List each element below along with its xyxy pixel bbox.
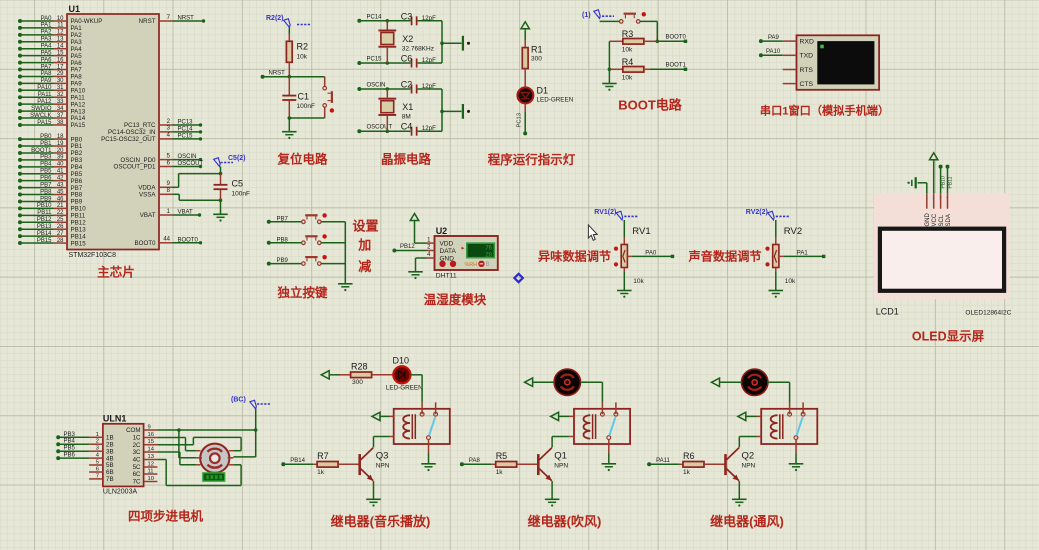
- svg-text:14: 14: [57, 44, 64, 50]
- svg-text:B: B: [486, 262, 490, 268]
- svg-text:45: 45: [57, 189, 64, 195]
- svg-text:11: 11: [148, 469, 154, 475]
- svg-text:21: 21: [57, 203, 64, 209]
- svg-text:RV2(2): RV2(2): [746, 209, 768, 216]
- svg-text:9: 9: [148, 425, 151, 431]
- svg-text:%RH: %RH: [465, 262, 478, 268]
- svg-text:R4: R4: [622, 57, 634, 67]
- svg-text:PB12: PB12: [37, 217, 52, 223]
- svg-text:Q2: Q2: [742, 450, 755, 461]
- svg-text:PA1: PA1: [41, 23, 53, 29]
- svg-text:41: 41: [57, 169, 64, 175]
- svg-text:CTS: CTS: [800, 81, 814, 88]
- svg-text:PA12: PA12: [37, 99, 52, 105]
- svg-text:PC15-OSC32_OUT: PC15-OSC32_OUT: [101, 136, 156, 143]
- svg-text:OSCIN: OSCIN: [178, 154, 197, 160]
- svg-text:12: 12: [57, 30, 64, 36]
- svg-text:VSSA: VSSA: [139, 192, 156, 199]
- svg-text:5B: 5B: [106, 462, 114, 469]
- svg-text:异味数据调节: 异味数据调节: [538, 249, 611, 264]
- svg-text:COM: COM: [126, 427, 140, 434]
- svg-text:37: 37: [57, 113, 64, 119]
- svg-text:PB14: PB14: [37, 231, 52, 237]
- svg-text:25: 25: [57, 217, 64, 223]
- svg-text:42: 42: [57, 175, 64, 181]
- svg-text:32: 32: [57, 92, 64, 98]
- svg-text:C5(2): C5(2): [228, 155, 246, 162]
- svg-text:VBAT: VBAT: [178, 210, 194, 216]
- svg-text:300: 300: [352, 379, 363, 386]
- svg-text:38: 38: [57, 120, 64, 126]
- svg-text:OLED12864I2C: OLED12864I2C: [965, 310, 1011, 317]
- svg-text:15: 15: [57, 50, 64, 56]
- svg-text:7: 7: [96, 473, 99, 479]
- svg-text:PA3: PA3: [41, 37, 53, 43]
- svg-text:PA1: PA1: [797, 250, 809, 256]
- svg-text:PB9: PB9: [277, 258, 289, 264]
- svg-text:PB7: PB7: [40, 182, 52, 188]
- svg-text:5: 5: [96, 460, 99, 466]
- svg-text:300: 300: [531, 56, 542, 63]
- svg-text:C5: C5: [232, 179, 244, 189]
- svg-text:独立按键: 独立按键: [276, 285, 328, 300]
- svg-text:R2(2): R2(2): [266, 15, 284, 22]
- svg-text:程序运行指示灯: 程序运行指示灯: [488, 152, 576, 167]
- svg-text:R7: R7: [317, 451, 329, 461]
- svg-text:PB7: PB7: [277, 216, 289, 222]
- svg-text:27: 27: [57, 231, 64, 237]
- svg-text:34: 34: [57, 106, 64, 112]
- svg-text:C3: C3: [401, 11, 413, 21]
- svg-text:PA7: PA7: [41, 64, 53, 70]
- svg-text:46: 46: [57, 196, 64, 202]
- svg-text:C2: C2: [401, 80, 413, 90]
- svg-text:20: 20: [57, 148, 64, 154]
- svg-text:PB6: PB6: [64, 453, 76, 459]
- svg-text:D10: D10: [393, 356, 410, 366]
- svg-text:100nF: 100nF: [297, 103, 315, 110]
- svg-text:PA0: PA0: [645, 250, 657, 256]
- svg-text:Q3: Q3: [376, 450, 389, 461]
- svg-text:OLED显示屏: OLED显示屏: [912, 330, 985, 344]
- svg-text:PC13: PC13: [517, 113, 523, 128]
- svg-text:C1: C1: [298, 92, 310, 102]
- svg-text:PB3: PB3: [40, 155, 52, 161]
- svg-text:LED-GREEN: LED-GREEN: [537, 97, 574, 104]
- svg-text:NPN: NPN: [554, 462, 568, 469]
- svg-text:1: 1: [96, 432, 99, 438]
- svg-text:OSCIN: OSCIN: [367, 83, 386, 89]
- svg-text:33: 33: [57, 99, 64, 105]
- svg-text:30: 30: [57, 78, 64, 84]
- svg-text:PC14: PC14: [178, 126, 194, 132]
- svg-text:PA10: PA10: [37, 85, 52, 91]
- svg-text:PB5: PB5: [40, 169, 52, 175]
- svg-text:1k: 1k: [317, 469, 325, 476]
- svg-text:DHT11: DHT11: [436, 273, 457, 280]
- svg-text:NPN: NPN: [376, 462, 390, 469]
- svg-text:PB1: PB1: [40, 141, 52, 147]
- svg-text:设置: 设置: [353, 219, 379, 234]
- svg-text:40: 40: [57, 162, 64, 168]
- svg-text:11: 11: [57, 23, 64, 29]
- svg-text:RV1(2): RV1(2): [594, 209, 616, 216]
- svg-text:SDA: SDA: [946, 214, 952, 226]
- svg-text:C4: C4: [401, 122, 413, 132]
- svg-text:C6: C6: [401, 54, 413, 64]
- svg-text:OSCOUT_PD1: OSCOUT_PD1: [114, 164, 157, 171]
- svg-text:3C: 3C: [133, 449, 141, 456]
- svg-text:PA8: PA8: [469, 458, 481, 464]
- svg-text:BOOT0: BOOT0: [666, 35, 687, 41]
- svg-text:10: 10: [57, 16, 64, 22]
- svg-text:PB0: PB0: [40, 134, 52, 140]
- svg-text:LED-GREEN: LED-GREEN: [386, 385, 423, 392]
- svg-text:4C: 4C: [133, 457, 141, 464]
- svg-text:PB9: PB9: [40, 196, 52, 202]
- svg-text:RV1: RV1: [632, 226, 650, 237]
- svg-text:U1: U1: [69, 4, 81, 14]
- svg-text:17: 17: [57, 64, 64, 70]
- svg-text:PA8: PA8: [41, 71, 53, 77]
- svg-text:声音数据调节: 声音数据调节: [688, 249, 762, 264]
- svg-text:10k: 10k: [622, 75, 633, 82]
- svg-text:1k: 1k: [683, 469, 691, 476]
- svg-text:29: 29: [57, 71, 64, 77]
- svg-text:BOOT电路: BOOT电路: [618, 98, 683, 113]
- svg-text:PB12: PB12: [400, 244, 415, 250]
- svg-text:5C: 5C: [133, 464, 141, 471]
- svg-text:10k: 10k: [622, 47, 633, 54]
- svg-text:PB5: PB5: [64, 446, 76, 452]
- svg-text:PB8: PB8: [40, 189, 52, 195]
- svg-text:GND: GND: [925, 213, 931, 227]
- svg-text:31: 31: [57, 85, 64, 91]
- svg-text:STM32F103C8: STM32F103C8: [69, 252, 117, 259]
- svg-text:温湿度模块: 温湿度模块: [424, 292, 487, 307]
- svg-text:32.768KHz: 32.768KHz: [402, 45, 434, 52]
- svg-text:继电器(吹风): 继电器(吹风): [528, 514, 602, 529]
- svg-text:2: 2: [96, 439, 99, 445]
- svg-text:BOOT0: BOOT0: [135, 240, 157, 247]
- svg-text:43: 43: [57, 182, 64, 188]
- svg-text:8M: 8M: [402, 114, 411, 121]
- svg-text:串口1窗口（模拟手机端）: 串口1窗口（模拟手机端）: [760, 104, 889, 118]
- svg-text:BOOT1: BOOT1: [666, 63, 687, 69]
- svg-text:PB10: PB10: [940, 176, 946, 188]
- svg-text:12pF: 12pF: [422, 57, 436, 64]
- svg-text:R6: R6: [683, 451, 695, 461]
- svg-text:TXD: TXD: [800, 53, 814, 60]
- svg-text:R1: R1: [531, 45, 543, 55]
- svg-text:26: 26: [57, 224, 64, 230]
- svg-text:LCD1: LCD1: [876, 307, 899, 317]
- svg-text:四项步进电机: 四项步进电机: [128, 509, 204, 524]
- svg-text:10: 10: [148, 476, 154, 482]
- svg-text:VDD: VDD: [440, 241, 454, 248]
- svg-text:PB15: PB15: [71, 240, 87, 247]
- svg-text:1C: 1C: [133, 435, 141, 442]
- svg-text:PB14: PB14: [290, 458, 305, 464]
- svg-text:PA6: PA6: [41, 57, 53, 63]
- svg-text:RTS: RTS: [800, 67, 814, 74]
- svg-text:2C: 2C: [133, 442, 141, 449]
- svg-text:100nF: 100nF: [232, 191, 250, 198]
- svg-text:PA9: PA9: [41, 78, 53, 84]
- svg-text:PA15: PA15: [37, 120, 52, 126]
- svg-text:X1: X1: [402, 102, 413, 112]
- svg-text:NRST: NRST: [178, 16, 195, 22]
- svg-text:U2: U2: [436, 226, 448, 236]
- svg-text:VCC: VCC: [932, 213, 938, 226]
- svg-text:PB8: PB8: [277, 237, 289, 243]
- svg-text:PA2: PA2: [41, 30, 53, 36]
- svg-text:13: 13: [148, 454, 154, 460]
- svg-text:6: 6: [96, 467, 99, 473]
- svg-text:15: 15: [148, 439, 154, 445]
- svg-text:PA10: PA10: [766, 49, 781, 55]
- svg-text:16: 16: [148, 432, 154, 438]
- svg-text:PB11: PB11: [947, 176, 953, 188]
- svg-text:R3: R3: [622, 29, 634, 39]
- svg-text:6C: 6C: [133, 471, 141, 478]
- svg-text:SWCLK: SWCLK: [30, 113, 51, 119]
- svg-text:继电器(音乐播放): 继电器(音乐播放): [331, 514, 431, 529]
- svg-text:1k: 1k: [496, 469, 504, 476]
- svg-text:PA5: PA5: [41, 50, 53, 56]
- svg-text:16: 16: [57, 57, 64, 63]
- svg-text:PA4: PA4: [41, 44, 53, 50]
- svg-text:7B: 7B: [106, 476, 114, 483]
- svg-text:PC14: PC14: [367, 14, 383, 20]
- svg-text:R5: R5: [496, 451, 508, 461]
- svg-text:3: 3: [96, 446, 99, 452]
- svg-text:28: 28: [485, 253, 492, 259]
- svg-text:12pF: 12pF: [422, 15, 436, 22]
- svg-text:ULN2003A: ULN2003A: [103, 489, 138, 496]
- svg-text:RXD: RXD: [800, 38, 814, 45]
- svg-text:减: 减: [358, 259, 371, 274]
- svg-text:晶振电路: 晶振电路: [381, 152, 432, 167]
- svg-text:PA11: PA11: [38, 92, 52, 98]
- svg-text:PB6: PB6: [40, 175, 52, 181]
- svg-text:22: 22: [57, 210, 64, 216]
- svg-text:PC15: PC15: [367, 57, 383, 63]
- svg-text:PB15: PB15: [37, 238, 52, 244]
- svg-text:10k: 10k: [633, 278, 644, 285]
- svg-text:R28: R28: [351, 362, 368, 372]
- svg-text:(BC): (BC): [231, 397, 246, 404]
- svg-text:加: 加: [357, 238, 371, 253]
- svg-text:PB13: PB13: [37, 224, 52, 230]
- svg-text:PA11: PA11: [656, 458, 670, 464]
- svg-text:Q1: Q1: [554, 450, 567, 461]
- svg-text:12pF: 12pF: [422, 125, 436, 132]
- svg-text:PB4: PB4: [64, 439, 76, 445]
- svg-text:PA0: PA0: [41, 16, 53, 22]
- svg-text:PC15: PC15: [178, 133, 194, 139]
- svg-text:R2: R2: [297, 42, 309, 52]
- svg-text:NPN: NPN: [742, 462, 756, 469]
- svg-text:76: 76: [485, 246, 492, 252]
- svg-text:PB11: PB11: [37, 210, 52, 216]
- svg-text:10k: 10k: [785, 278, 796, 285]
- svg-text:NRST: NRST: [269, 71, 286, 77]
- svg-text:D1: D1: [537, 86, 549, 96]
- svg-text:PC14-OSC32_IN: PC14-OSC32_IN: [108, 129, 155, 136]
- svg-text:SWDIO: SWDIO: [31, 106, 52, 112]
- svg-text:14: 14: [148, 447, 155, 453]
- svg-text:(1): (1): [582, 12, 591, 19]
- svg-text:19: 19: [57, 141, 64, 147]
- svg-text:BOOT1: BOOT1: [31, 148, 52, 154]
- svg-text:主芯片: 主芯片: [97, 265, 135, 280]
- svg-text:ULN1: ULN1: [103, 414, 127, 424]
- svg-text:PC13: PC13: [178, 120, 194, 126]
- svg-text:继电器(通风): 继电器(通风): [710, 514, 784, 529]
- svg-text:7C: 7C: [133, 479, 141, 486]
- svg-text:13: 13: [57, 37, 64, 43]
- svg-text:39: 39: [57, 155, 64, 161]
- svg-text:OSCOUT: OSCOUT: [367, 125, 393, 131]
- svg-text:NRST: NRST: [139, 18, 156, 25]
- svg-text:VDDA: VDDA: [138, 185, 156, 192]
- svg-text:BOOT0: BOOT0: [178, 237, 199, 243]
- svg-text:RV2: RV2: [784, 226, 802, 237]
- svg-text:PB4: PB4: [40, 162, 52, 168]
- svg-text:44: 44: [163, 237, 170, 243]
- svg-text:2B: 2B: [106, 441, 114, 448]
- svg-text:18: 18: [57, 134, 64, 140]
- svg-text:DATA: DATA: [440, 248, 457, 255]
- svg-text:PB3: PB3: [64, 432, 76, 438]
- svg-text:10k: 10k: [297, 54, 308, 61]
- svg-text:28: 28: [57, 238, 64, 244]
- svg-text:12pF: 12pF: [422, 83, 436, 90]
- svg-text:X2: X2: [402, 34, 413, 44]
- svg-text:PB10: PB10: [37, 203, 52, 209]
- svg-text:PA15: PA15: [71, 122, 86, 129]
- svg-text:PA9: PA9: [768, 35, 780, 41]
- svg-text:VBAT: VBAT: [140, 212, 156, 219]
- svg-text:SCL: SCL: [939, 214, 945, 226]
- svg-text:复位电路: 复位电路: [276, 152, 328, 167]
- svg-text:12: 12: [148, 462, 154, 468]
